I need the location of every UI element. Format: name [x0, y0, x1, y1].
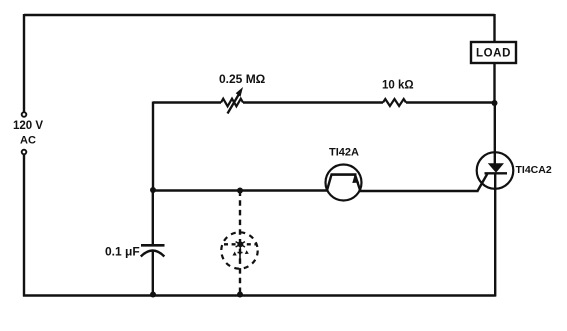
potentiometer arrow: [228, 92, 241, 114]
transistor Q1 left leg: [327, 175, 332, 191]
svg-text:10 kΩ: 10 kΩ: [382, 80, 414, 92]
svg-text:0.1 μF: 0.1 μF: [105, 245, 140, 259]
wire capacitor to bottom: [152, 251, 154, 295]
svg-text:0.25 MΩ: 0.25 MΩ: [219, 72, 266, 86]
resistor R1 0.25 Mohm zigzag: [221, 99, 243, 107]
photocell small mark left: [233, 252, 237, 256]
photocell small mark T: [238, 253, 243, 259]
wire junction to triac: [494, 103, 496, 164]
wire between resistors: [243, 101, 383, 103]
wire main horizontal left segment: [153, 101, 221, 103]
wire dashed branch: [239, 191, 241, 295]
svg-text:LOAD: LOAD: [476, 48, 511, 60]
resistor R2 10 kohm zigzag: [383, 99, 406, 106]
svg-text:TI42A: TI42A: [329, 147, 359, 159]
svg-text:120 V: 120 V: [13, 120, 43, 132]
terminal upper AC: [22, 112, 27, 117]
node junction bottom capacitor: [150, 292, 156, 298]
photocell small mark right: [245, 250, 249, 254]
potentiometer arrowhead: [236, 87, 243, 97]
wire left vertical upper: [23, 14, 25, 112]
wire top horizontal: [24, 14, 495, 16]
node junction dashed branch: [237, 188, 243, 194]
wire left vertical lower: [23, 155, 25, 297]
capacitor C1 top plate: [141, 244, 165, 247]
terminal lower AC: [22, 150, 27, 155]
wire bottom horizontal: [23, 294, 496, 296]
capacitor C1 bottom plate: [141, 251, 165, 257]
node junction gate-line left: [150, 187, 156, 193]
photocell star spikes: [236, 239, 245, 249]
wire right vertical to LOAD: [493, 14, 495, 42]
wire triac to bottom: [494, 173, 496, 297]
wire gate line left: [152, 189, 328, 191]
svg-text:AC: AC: [20, 135, 36, 147]
photocell dashed circle: [221, 232, 257, 268]
wire to capacitor: [152, 190, 154, 245]
transistor Q1 arrowhead: [352, 175, 359, 183]
triac Q2 TI4CA2 circle: [477, 152, 514, 189]
load box: [471, 42, 516, 63]
wire gate line right: [360, 190, 479, 192]
photocell dashed horizontal: [224, 243, 257, 245]
transistor Q1 right leg: [355, 175, 361, 192]
photocell center dot: [237, 241, 243, 247]
triac Q2 triangle: [488, 163, 504, 173]
svg-text:TI4CA2: TI4CA2: [516, 164, 552, 176]
wire left branch vertical: [152, 102, 154, 191]
wire triac gate diagonal: [478, 174, 488, 192]
node junction R-load: [492, 100, 498, 106]
wire 10k to junction: [406, 101, 495, 103]
transistor Q1 bar: [331, 173, 357, 176]
transistor Q1 TI42A circle: [326, 165, 362, 201]
node junction bottom dashed: [237, 292, 243, 298]
triac Q2 cathode bar: [485, 172, 508, 174]
wire LOAD to junction: [493, 63, 495, 103]
